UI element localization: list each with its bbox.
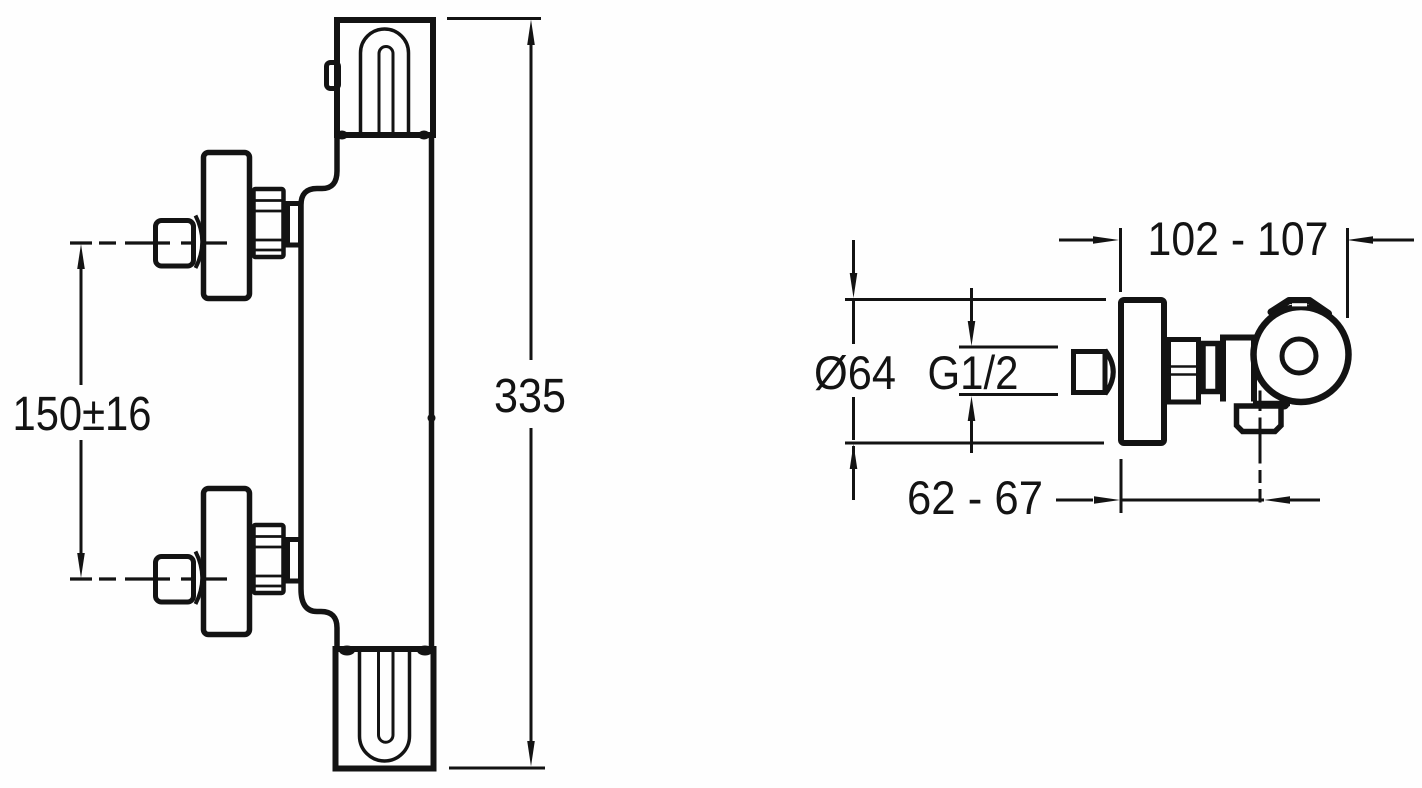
junction blob left on bottom box top <box>339 646 355 656</box>
dimension 62-67 line <box>1056 499 1320 502</box>
inner circle <box>1282 339 1316 373</box>
dimension 150±16 line upper <box>80 266 83 385</box>
side view inlet dome <box>1105 350 1113 394</box>
dimension 102-107 line right <box>1372 239 1414 242</box>
lower step piece <box>288 540 301 582</box>
side view collar <box>1203 344 1218 392</box>
dimension 102-107 line left <box>1059 239 1094 242</box>
dimension 62-67 extension line <box>1120 459 1123 513</box>
dimension 102-107 arrow left <box>1093 236 1119 244</box>
dimension 335 top extension line <box>447 17 541 20</box>
dimension 150±16 arrow up <box>77 244 85 269</box>
bottom box outer U slot <box>360 648 410 761</box>
dimension G1/2 arrow up <box>968 396 976 421</box>
svg-text:335: 335 <box>494 370 566 423</box>
body left outline with S-curves <box>301 133 337 651</box>
bottom box inner U slot <box>379 648 394 742</box>
outlet centerline <box>1259 391 1262 503</box>
bottom mounting box <box>336 649 434 769</box>
dimension 62-67 arrow right <box>1094 496 1120 504</box>
dimension 102-107 right extension line <box>1346 228 1349 318</box>
shower holder circle <box>1254 307 1349 402</box>
dimension G1/2 vertical line <box>970 288 973 453</box>
dimension Ø64 arrow up <box>850 444 858 469</box>
lower knob dome <box>196 552 203 605</box>
lower handle flange <box>204 489 250 635</box>
side view valve block <box>1223 338 1254 402</box>
junction dot left on top box bottom <box>336 131 348 140</box>
svg-text:102 - 107: 102 - 107 <box>1148 212 1329 265</box>
side view nut facet lines <box>1167 367 1200 375</box>
upper handle flange <box>204 153 250 299</box>
svg-text:62 - 67: 62 - 67 <box>907 471 1043 524</box>
dimension 335 arrow down <box>527 741 535 767</box>
body right edge <box>429 133 435 651</box>
dimension 335 line <box>530 42 533 744</box>
svg-text:G1/2: G1/2 <box>928 346 1019 399</box>
side view nut <box>1169 340 1199 403</box>
lower axis centerline <box>70 577 227 580</box>
dimension 335 arrow up <box>527 20 535 46</box>
dimension G1/2 arrow down <box>968 321 976 346</box>
side view wall flange <box>1121 300 1164 443</box>
svg-text:Ø64: Ø64 <box>814 346 896 399</box>
upper step piece <box>288 204 301 246</box>
dimension 150±16 arrow down <box>77 553 85 578</box>
dimension 62-67 arrow left <box>1264 496 1290 504</box>
dimension Ø64 arrow down <box>850 273 858 298</box>
top box inner slot <box>379 47 393 137</box>
bridge line block to circle over outlet <box>1253 401 1290 407</box>
dimension 102-107 arrow right <box>1347 236 1373 244</box>
dimension Ø64 top extension line <box>845 298 1106 301</box>
upper nut facet lines <box>252 201 285 251</box>
outlet <box>1237 406 1282 432</box>
top mounting box <box>337 20 433 135</box>
dimension G1/2 bottom extension line <box>959 393 1058 396</box>
side view inlet connector <box>1074 352 1106 393</box>
dimension 102-107 left extension line <box>1119 228 1122 292</box>
lower handle knob <box>156 557 194 603</box>
seam dot on body right edge <box>428 414 436 422</box>
svg-text:150±16: 150±16 <box>13 388 152 441</box>
dimension Ø64 vertical line <box>852 240 855 500</box>
upper handle knob <box>156 221 194 267</box>
dimension 335 bottom extension line <box>449 767 545 770</box>
lower nut facet lines <box>252 537 285 587</box>
dimension 150±16 line lower <box>80 440 83 557</box>
junction dot right on top box bottom <box>418 131 430 140</box>
clamp slit highlight <box>1292 303 1307 306</box>
upper axis centerline <box>70 241 227 244</box>
dimension G1/2 top extension line <box>959 346 1058 349</box>
pivot clamp tent on circle top <box>1271 301 1329 314</box>
junction blob right on bottom box top <box>417 646 433 656</box>
upper nut <box>254 189 284 257</box>
junction blob outlet-circle <box>1279 399 1290 410</box>
upper knob dome <box>196 216 203 269</box>
top box outer arch slot <box>361 29 409 136</box>
lower nut <box>254 525 284 593</box>
dimension Ø64 bottom extension line <box>845 442 1104 445</box>
wall clip tab (left of top box) <box>327 63 339 89</box>
